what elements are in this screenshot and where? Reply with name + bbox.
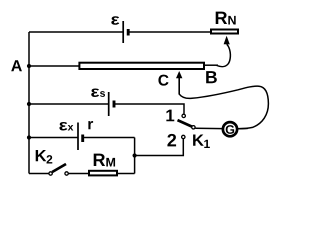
battery EPS long plate [122,21,124,43]
wire slide-wire B end [205,64,218,66]
wire A to slide-wire [29,65,79,67]
label K1 [193,134,210,148]
wire middle vertical [134,138,136,174]
label RN [216,12,236,25]
wire pivot to galvanometer [195,127,222,129]
battery EPS_s short plate [113,101,116,108]
wire RM to middle vertical [117,173,135,175]
wire bottom left [29,173,49,175]
label epsilon [111,16,119,24]
terminal 1 [182,114,185,117]
battery EPS short plate [127,29,130,36]
arrowhead at RN [224,36,230,45]
label C [158,75,168,86]
label r [88,121,93,129]
wire left vertical bus [28,32,30,174]
battery EPS_x long plate [77,123,79,151]
label RM [94,154,115,167]
node junction eps_s on bus [27,102,31,106]
node junction dot [133,153,137,157]
node junction eps_x on bus [27,135,31,139]
slide wire AB [79,63,204,69]
label K2 [36,150,53,164]
wire K2 to RM [69,173,90,175]
label B [206,71,217,83]
switch K2 left contact [49,172,52,175]
wire battery to RN [128,31,210,33]
wire eps_s row right [114,104,184,114]
resistor RM [89,171,117,176]
switch K1 blade [178,120,193,127]
wire eps_s row left [29,103,109,105]
wire C to galvanometer (curved) [179,86,268,129]
wire terminal 2 down and left [135,139,184,156]
node A junction dot [27,64,31,68]
slider C arrow [178,78,180,95]
switch K2 blade [52,164,66,172]
label A [11,60,22,71]
galvanometer G [223,122,237,136]
wire B to RN tap (curved arrow) [217,44,231,67]
wire galvanometer right [237,127,248,129]
label 2 [167,134,176,147]
terminal 2 [182,135,185,138]
label epsilon_x [59,122,73,131]
wire eps_x row left [29,137,78,139]
wire eps_x row right [83,137,135,139]
label 1 [166,110,174,122]
battery EPS_x short plate [81,135,84,143]
wire top left (node to battery) [29,31,123,33]
battery EPS_s long plate [108,92,110,116]
switch K2 right contact [65,172,68,175]
label epsilon_s [91,88,105,96]
resistor RN [211,30,238,34]
switch K1 pivot contact [192,126,195,129]
